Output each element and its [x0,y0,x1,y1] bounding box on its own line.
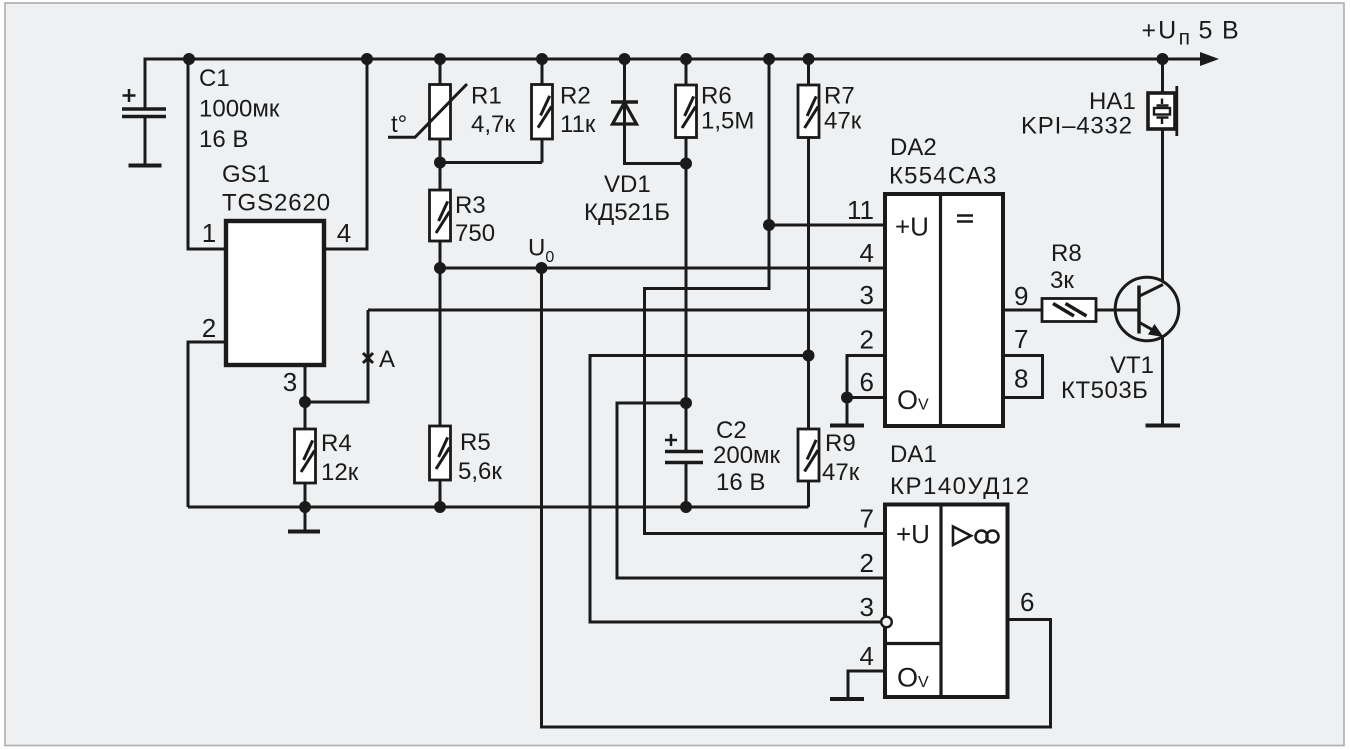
junction R1/rail [434,53,446,65]
junction GS1 pin3/R4 [299,396,311,408]
svg-text:VT1: VT1 [1110,352,1154,379]
wire R4 leads [304,402,307,507]
svg-text:4,7к: 4,7к [471,111,515,138]
wire R1/R3 junction to R2 [440,161,542,164]
svg-text:DA1: DA1 [890,441,937,468]
ground at DA1 pin 4 [830,697,864,701]
op-amp DA1 box [885,505,1008,698]
ground below R4 [304,507,307,530]
resistor R9 [798,429,819,481]
wire node A riser [305,310,368,402]
svg-text:К554СА3: К554СА3 [889,163,998,190]
svg-text:2: 2 [860,548,874,578]
svg-text:16 В: 16 В [716,469,765,496]
op-amp DA1 pin 3 inversion bubble [881,617,892,628]
svg-text:КР140УД12: КР140УД12 [890,473,1031,500]
svg-text:6: 6 [860,367,874,397]
svg-text:C1: C1 [199,65,230,92]
svg-text:R7: R7 [824,83,855,110]
svg-text:KPI–4332: KPI–4332 [1021,113,1133,140]
svg-text:6: 6 [1020,587,1034,617]
wire DA2 pin 9 to R8 [1003,309,1043,312]
wire +U branch to DA1 pin 7 [645,225,886,534]
wire C2 node to DA1 pin 2 [617,403,885,578]
svg-text:2: 2 [202,313,216,343]
svg-text:R6: R6 [701,83,732,110]
svg-text:R3: R3 [455,192,486,219]
junction R5/common [434,501,446,513]
resistor R1 (thermistor body) [430,85,451,140]
svg-text:4: 4 [860,641,874,671]
junction C2 top node [680,397,692,409]
svg-text:TGS2620: TGS2620 [222,190,331,217]
svg-text:16 В: 16 В [199,126,248,153]
resistor R8 [1042,299,1096,322]
junction VD1/R6 [680,158,692,170]
junction R6/rail [680,53,692,65]
junction DA-supply/rail [763,53,775,65]
svg-text:R2: R2 [560,83,591,110]
wire R9 bottom lead [807,481,810,507]
ground below VT1 [1146,424,1181,428]
svg-text:GS1: GS1 [222,161,270,188]
svg-text:2: 2 [860,325,874,355]
svg-text:12к: 12к [321,459,359,486]
ground at DA2 pin 6 [846,398,849,425]
wire node A to DA2 pin 3 [368,309,885,312]
junction HA1/rail [1157,53,1169,65]
wire U0 to DA1 pin 6 output loop [542,268,1051,727]
wire R6 leads [685,58,688,164]
junction pin11 supply [763,219,775,231]
svg-text:R8: R8 [1051,240,1082,267]
op-amp DA1 amplifier symbol [953,527,971,546]
resistor R4 [295,429,316,483]
svg-text:3: 3 [860,280,874,310]
wire R7 leads [807,58,810,430]
resistor R6 [676,85,697,138]
svg-text:t°: t° [391,111,407,138]
wire GS1 pin 2 down to common rail [188,342,226,507]
equals sign in DA2 [957,216,973,222]
capacitor C2 [685,403,688,451]
wire DA1 pin 4 to ground [848,671,885,698]
junction R4/common [299,501,311,513]
svg-text:R4: R4 [321,430,352,457]
resistor R2 [532,85,553,140]
svg-text:R1: R1 [471,83,502,110]
junction R1/R3/R2 [434,157,446,169]
wire VT1 emitter to ground [1161,337,1164,425]
buzzer HA1 [1148,93,1175,129]
junction U0 branch [536,262,548,274]
diode VD1 [625,58,687,164]
wire GS1 pin 1 to +U rail [188,58,226,250]
resistor R7 [798,85,819,138]
wire GS1 pin 3 lead [304,365,307,402]
svg-text:200мк: 200мк [713,442,781,469]
svg-text:КД521Б: КД521Б [584,199,670,226]
wire HA1 top lead [1161,59,1164,93]
wire R2 leads [541,58,544,163]
svg-text:7: 7 [1014,324,1028,354]
svg-text:A: A [379,346,395,373]
wire R3 leads [439,163,442,269]
wire R6 down to C2 node [685,164,688,404]
svg-text:R5: R5 [460,429,491,456]
svg-text:47к: 47к [822,459,860,486]
svg-text:5,6к: 5,6к [458,458,502,485]
svg-text:КТ503Б: КТ503Б [1061,377,1148,404]
svg-text:1000мк: 1000мк [199,96,280,123]
junction R3/U0 [434,262,446,274]
comparator DA2 box [885,194,1003,426]
svg-text:3: 3 [283,367,297,397]
junction R7/rail [803,53,815,65]
capacitor C1 [144,58,147,108]
wire DA2 pins 2-6 strap [847,356,885,398]
svg-text:+U: +U [896,519,930,549]
svg-text:750: 750 [455,220,495,247]
svg-text:VD1: VD1 [604,171,651,198]
svg-text:3к: 3к [1050,267,1074,294]
wire R7/R9 junction to DA1 pin 3 [590,356,881,623]
wire U0 node to DA2 pin 4 [440,267,885,270]
svg-text:1,5М: 1,5М [701,108,754,135]
resistor R5 [430,426,451,480]
junction R2/rail [536,53,548,65]
svg-text:3: 3 [860,592,874,622]
junction DA2 pin6/ground [841,392,853,404]
wire GS1 pin 4 to +U rail [324,58,367,250]
svg-text:8: 8 [1014,364,1028,394]
svg-text:+U: +U [895,212,929,242]
svg-text:1: 1 [202,218,216,248]
wire HA1 to VT1 collector [1161,129,1164,282]
wire R1 leads [439,58,442,163]
power arrow +Uп [1200,52,1219,66]
junction VD1/rail [619,53,631,65]
svg-text:4: 4 [860,238,874,268]
svg-text:4: 4 [337,218,351,248]
junction C1/rail [183,53,195,65]
junction GS1 pin4/rail [361,53,373,65]
wire common bottom rail [188,506,809,509]
transistor VT1 [1115,277,1179,341]
svg-text:HA1: HA1 [1089,88,1136,115]
junction R7/R9 [803,350,815,362]
wire +U to DA2 pin 11 [769,58,885,226]
svg-text:R9: R9 [825,430,856,457]
wire R5 leads [439,268,442,507]
gas sensor GS1 box [226,221,324,365]
svg-text:C2: C2 [716,417,747,444]
svg-text:9: 9 [1014,281,1028,311]
wire DA2 pins 7-8 strap [1003,356,1043,398]
svg-text:DA2: DA2 [890,134,937,161]
wire +U power rail [145,58,1201,61]
svg-text:11к: 11к [560,111,596,138]
wire R8 to VT1 base [1096,309,1115,312]
svg-text:47к: 47к [824,108,862,135]
svg-text:11: 11 [847,195,874,225]
junction C2/common [680,501,692,513]
svg-text:7: 7 [860,504,874,534]
resistor R3 [430,190,451,241]
node A cross mark [363,353,373,363]
